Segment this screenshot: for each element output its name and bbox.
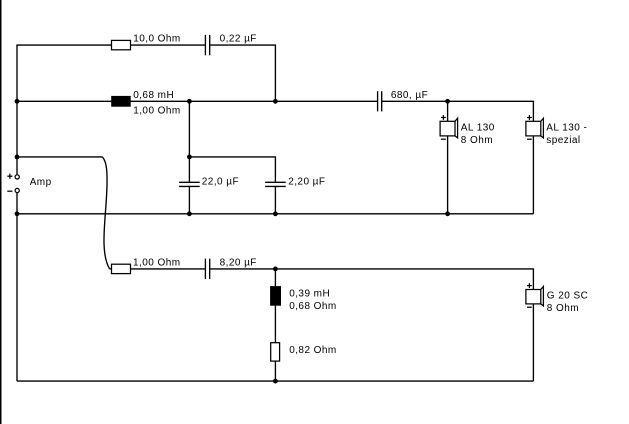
wire top branch right with corner down to node B (210, 45, 275, 101)
node B ground (2,20uF bottom) (273, 211, 278, 216)
svg-text:0,22 µF: 0,22 µF (220, 34, 257, 45)
resistor 1,00 Ohm (112, 264, 131, 273)
wire G20SC bottom lead (532, 304, 534, 381)
wire 22uF top lead (188, 101, 190, 182)
wire speaker 2 bottom lead (532, 136, 534, 214)
wire mid left (17, 100, 111, 102)
svg-text:680, µF: 680, µF (391, 90, 428, 101)
svg-text:8 Ohm: 8 Ohm (547, 303, 579, 314)
node left-branch junction (15, 155, 20, 160)
capacitor 0,22 uF (205, 35, 209, 55)
capacitor 2,20 uF (265, 182, 286, 186)
svg-text:0,68 mH: 0,68 mH (133, 90, 174, 101)
wire lowpass input to resistor (110, 268, 112, 270)
wire mid to speaker 2 with corner down (448, 101, 534, 121)
wire lowpass right with corner down to G20SC (210, 269, 533, 290)
inductor 0,68 mH (111, 96, 131, 107)
node speaker1 ground junction (445, 211, 450, 216)
svg-text:0,68 Ohm: 0,68 Ohm (289, 301, 337, 312)
wire mid center (131, 100, 378, 102)
resistor 10,0 Ohm (112, 40, 131, 49)
speaker AL 130 (440, 115, 458, 139)
wire top branch left (16, 44, 111, 46)
node lowpass shunt bottom (273, 379, 278, 384)
svg-text:1,00 Ohm: 1,00 Ohm (133, 105, 181, 116)
svg-text:0,39 mH: 0,39 mH (289, 288, 330, 299)
wire bottom bus (17, 380, 533, 382)
wire shunt bottom lead (274, 361, 276, 381)
wire left bus lower (amp - feed) (16, 193, 18, 382)
wire lowpass middle (130, 268, 205, 270)
wire branch to lowpass (17, 156, 102, 158)
wire speaker 1 bottom lead (447, 136, 449, 214)
node speaker1 mid junction (445, 99, 450, 104)
wire shunt top lead (274, 269, 276, 286)
wire left bus upper (amp + feed) (16, 45, 18, 174)
node A branch (22uF top) (187, 155, 192, 160)
node left-mid junction (15, 99, 20, 104)
svg-text:AL 130: AL 130 (461, 122, 495, 133)
node A ground (22uF bottom) (187, 211, 192, 216)
svg-text:AL 130 -: AL 130 - (546, 122, 587, 133)
node lowpass shunt top (273, 267, 278, 272)
wire curved link down to lowpass input (102, 157, 109, 269)
svg-text:spezial: spezial (546, 135, 580, 146)
svg-text:8,20 µF: 8,20 µF (220, 258, 257, 269)
svg-text:22,0 µF: 22,0 µF (202, 177, 239, 188)
wire shunt middle lead (274, 306, 276, 343)
speaker G 20 SC (526, 283, 544, 307)
wire ground bus (17, 213, 533, 215)
node left-ground junction (15, 211, 20, 216)
svg-text:10,0 Ohm: 10,0 Ohm (133, 34, 181, 45)
capacitor 680 uF (378, 91, 382, 111)
amp + terminal (7, 174, 19, 179)
wire speaker 1 top lead (447, 101, 449, 121)
capacitor 22,0 uF (179, 182, 200, 186)
svg-text:1,00 Ohm: 1,00 Ohm (133, 258, 181, 269)
svg-text:0,82 Ohm: 0,82 Ohm (289, 345, 337, 356)
capacitor 8,20 uF (205, 259, 209, 279)
svg-text:2,20 µF: 2,20 µF (288, 177, 325, 188)
speaker AL 130 - spezial (526, 115, 544, 139)
svg-text:Amp: Amp (30, 177, 52, 188)
svg-text:8 Ohm: 8 Ohm (461, 135, 493, 146)
wire cap branch horizontal (189, 157, 275, 182)
inductor 0,39 mH (270, 286, 281, 306)
wire 22uF bottom lead (188, 187, 190, 214)
wire top branch middle (130, 44, 205, 46)
wire 2.2uF bottom lead (274, 187, 276, 214)
resistor 0,82 Ohm (271, 343, 280, 361)
amp - terminal (7, 188, 19, 192)
node B mid (0,22uF tap) (273, 99, 278, 104)
wire mid right of 680uF (382, 100, 448, 102)
node A mid (22uF tap) (187, 99, 192, 104)
svg-text:G 20 SC: G 20 SC (547, 290, 589, 301)
